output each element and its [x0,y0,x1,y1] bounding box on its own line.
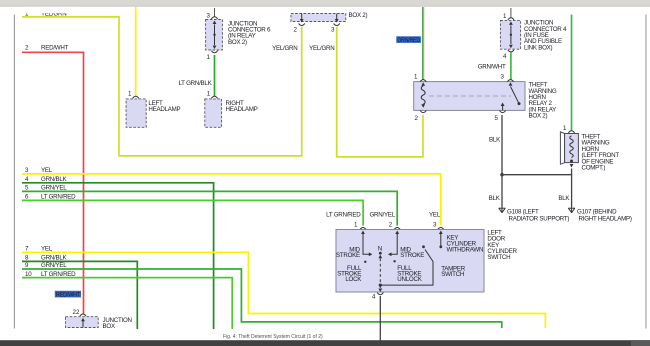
right page border [645,15,647,329]
svg-text:Fig. 4: Theft Deterrent System: Fig. 4: Theft Deterrent System Circuit (… [223,334,323,340]
relay switch: pin 3 arrow + blade [509,82,513,86]
full stroke lock contact [364,261,366,263]
svg-text:BLK: BLK [558,195,570,202]
svg-text:LT GRN/RED: LT GRN/RED [41,271,76,278]
svg-text:RED/WHT: RED/WHT [41,45,69,52]
pin 2 internal line with arrow to centre [395,231,399,235]
svg-text:YEL: YEL [41,167,53,174]
svg-text:LINK BOX): LINK BOX) [524,44,553,51]
svg-text:1: 1 [563,125,567,132]
svg-text:BLK: BLK [489,137,501,144]
svg-text:GRN/YEL: GRN/YEL [41,185,67,192]
wire 4 GRN/BLK [22,183,214,329]
svg-text:RADIATOR SUPPORT): RADIATOR SUPPORT) [509,216,570,223]
svg-text:SWITCH: SWITCH [487,254,510,261]
svg-text:G107 (BEHIND: G107 (BEHIND [577,208,617,215]
svg-text:STROKE: STROKE [336,252,360,259]
bottom status bar [0,340,650,346]
svg-text:WITHDRAWN: WITHDRAWN [447,247,484,254]
junction connector 7 pin 2 [299,23,305,25]
svg-text:LOCK: LOCK [345,276,362,283]
centre wiper dashed line to pin 4 [379,259,381,286]
svg-text:HEADLAMP: HEADLAMP [148,106,180,113]
BLK wire junction to G108 [501,175,503,207]
left headlamp [126,90,146,127]
relay pin 5 connector [500,111,506,113]
svg-text:COMPT.): COMPT.) [582,165,606,172]
relay pin 5 stub [501,103,505,107]
svg-text:1: 1 [414,74,418,81]
wire 9 GRN/YEL [22,269,502,328]
svg-text:GRN/YEL: GRN/YEL [41,262,67,269]
ground G108 [499,207,506,213]
pin 1 internal line with arrow to centre [361,231,365,235]
theft warning horn [560,125,578,167]
wire 8 GRN/BLK [22,261,137,329]
svg-text:1: 1 [354,221,358,228]
theft warning horn relay 2 box [414,74,525,123]
svg-text:N: N [378,245,382,252]
svg-text:4: 4 [503,53,507,60]
svg-text:GRN/BLK: GRN/BLK [41,176,68,183]
top toolbar strip [0,0,650,6]
wire YEL/GRN from junction connector 7 pin 3 to relay pin 2 [337,27,423,157]
wire 2 RED/WHT [22,52,84,314]
svg-text:LT GRN/RED: LT GRN/RED [41,194,76,201]
svg-text:1: 1 [128,90,132,97]
svg-text:2: 2 [389,221,393,228]
svg-text:G108 (LEFT: G108 (LEFT [507,208,539,215]
svg-text:STROKE: STROKE [400,252,424,259]
left page border [13,15,15,329]
svg-text:YEL/GRN: YEL/GRN [309,45,334,52]
wire 5 GRN/YEL [22,191,397,225]
svg-text:BOX 2): BOX 2) [349,12,368,19]
svg-text:YEL/GRN: YEL/GRN [272,45,297,52]
svg-text:1: 1 [207,54,211,61]
relay pin 1 connector [420,80,426,82]
pin 4 [377,293,383,295]
GRN/RED highlighted label [396,36,421,43]
svg-text:RIGHT HEADLAMP): RIGHT HEADLAMP) [579,216,632,223]
wire GRN/WHT junction connector 4 to relay pin 3 [510,52,512,79]
relay pin 3 connector [507,80,513,82]
ground junction node [500,173,503,176]
svg-text:2: 2 [294,27,298,34]
svg-text:LT GRN/RED: LT GRN/RED [326,212,361,219]
wire LT GRN/BLK junction connector 6 to right headlamp [214,55,216,96]
tamper switch blade [422,245,425,248]
svg-text:BOX: BOX [103,323,115,330]
svg-text:YEL: YEL [429,212,441,219]
svg-text:UNLOCK: UNLOCK [397,276,422,283]
left door key cylinder switch box [336,221,484,300]
junction box (bottom left) [66,309,99,327]
svg-text:HEADLAMP: HEADLAMP [226,106,258,113]
svg-text:10: 10 [25,271,32,278]
wire GRN to theft warning horn [571,15,573,131]
wire 6 LT GRN/RED [22,200,363,225]
svg-text:3: 3 [207,12,211,19]
svg-text:BOX 2): BOX 2) [529,113,548,120]
wire 1 YEL/GRN (left feed to junction connector) [22,17,302,156]
junction connector 7 box (top centre, cut off) [291,14,346,23]
wire GRN/RED into relay pin 1 (two-tone) [422,7,424,80]
wire YEL to left headlamp [135,7,137,96]
svg-text:GRN/YEL: GRN/YEL [369,212,395,219]
svg-text:YEL: YEL [41,246,53,253]
svg-text:3: 3 [331,27,335,34]
svg-text:BOX 2): BOX 2) [228,39,247,46]
svg-text:1: 1 [503,13,507,20]
ground G107 [568,207,575,213]
svg-text:22: 22 [73,309,80,316]
svg-text:BLK: BLK [489,195,501,202]
svg-text:RED/WHT: RED/WHT [56,291,80,298]
svg-text:3: 3 [501,74,505,81]
svg-text:4: 4 [372,294,376,301]
svg-text:GRN/RED: GRN/RED [397,37,420,44]
wire 7 YEL [22,252,545,328]
BLK wire junction to horn/G107 leg [502,175,572,207]
svg-text:SWITCH: SWITCH [441,271,464,278]
full stroke unlock contact [393,260,395,262]
relay internal dashed line [429,95,511,97]
svg-text:GRN/BLK: GRN/BLK [41,255,68,262]
svg-text:LT GRN/BLK: LT GRN/BLK [178,80,212,87]
junction connector 7 pin 3 [334,23,340,25]
right headlamp [205,90,222,127]
RED/WHT highlighted label [55,291,81,298]
switch body [336,230,484,293]
junction connector 4 (in fuse and fusible link box) [500,8,520,60]
wire 10 LT GRN/RED [22,278,232,329]
relay pin 5 BLK wire down to ground junction [501,115,503,175]
wire 3 YEL [22,174,441,226]
svg-text:GRN/WHT: GRN/WHT [478,64,506,71]
svg-text:5: 5 [495,115,499,122]
svg-text:1: 1 [207,90,211,97]
relay pin 2 connector [420,111,426,113]
svg-text:2: 2 [415,115,419,122]
svg-text:3: 3 [433,221,437,228]
junction connector 6 (in relay box 2) [206,8,223,61]
switch pin 4 BLK wire down [379,296,381,341]
relay coil [421,82,425,86]
pin 3 internal line with contact dot [439,231,443,235]
